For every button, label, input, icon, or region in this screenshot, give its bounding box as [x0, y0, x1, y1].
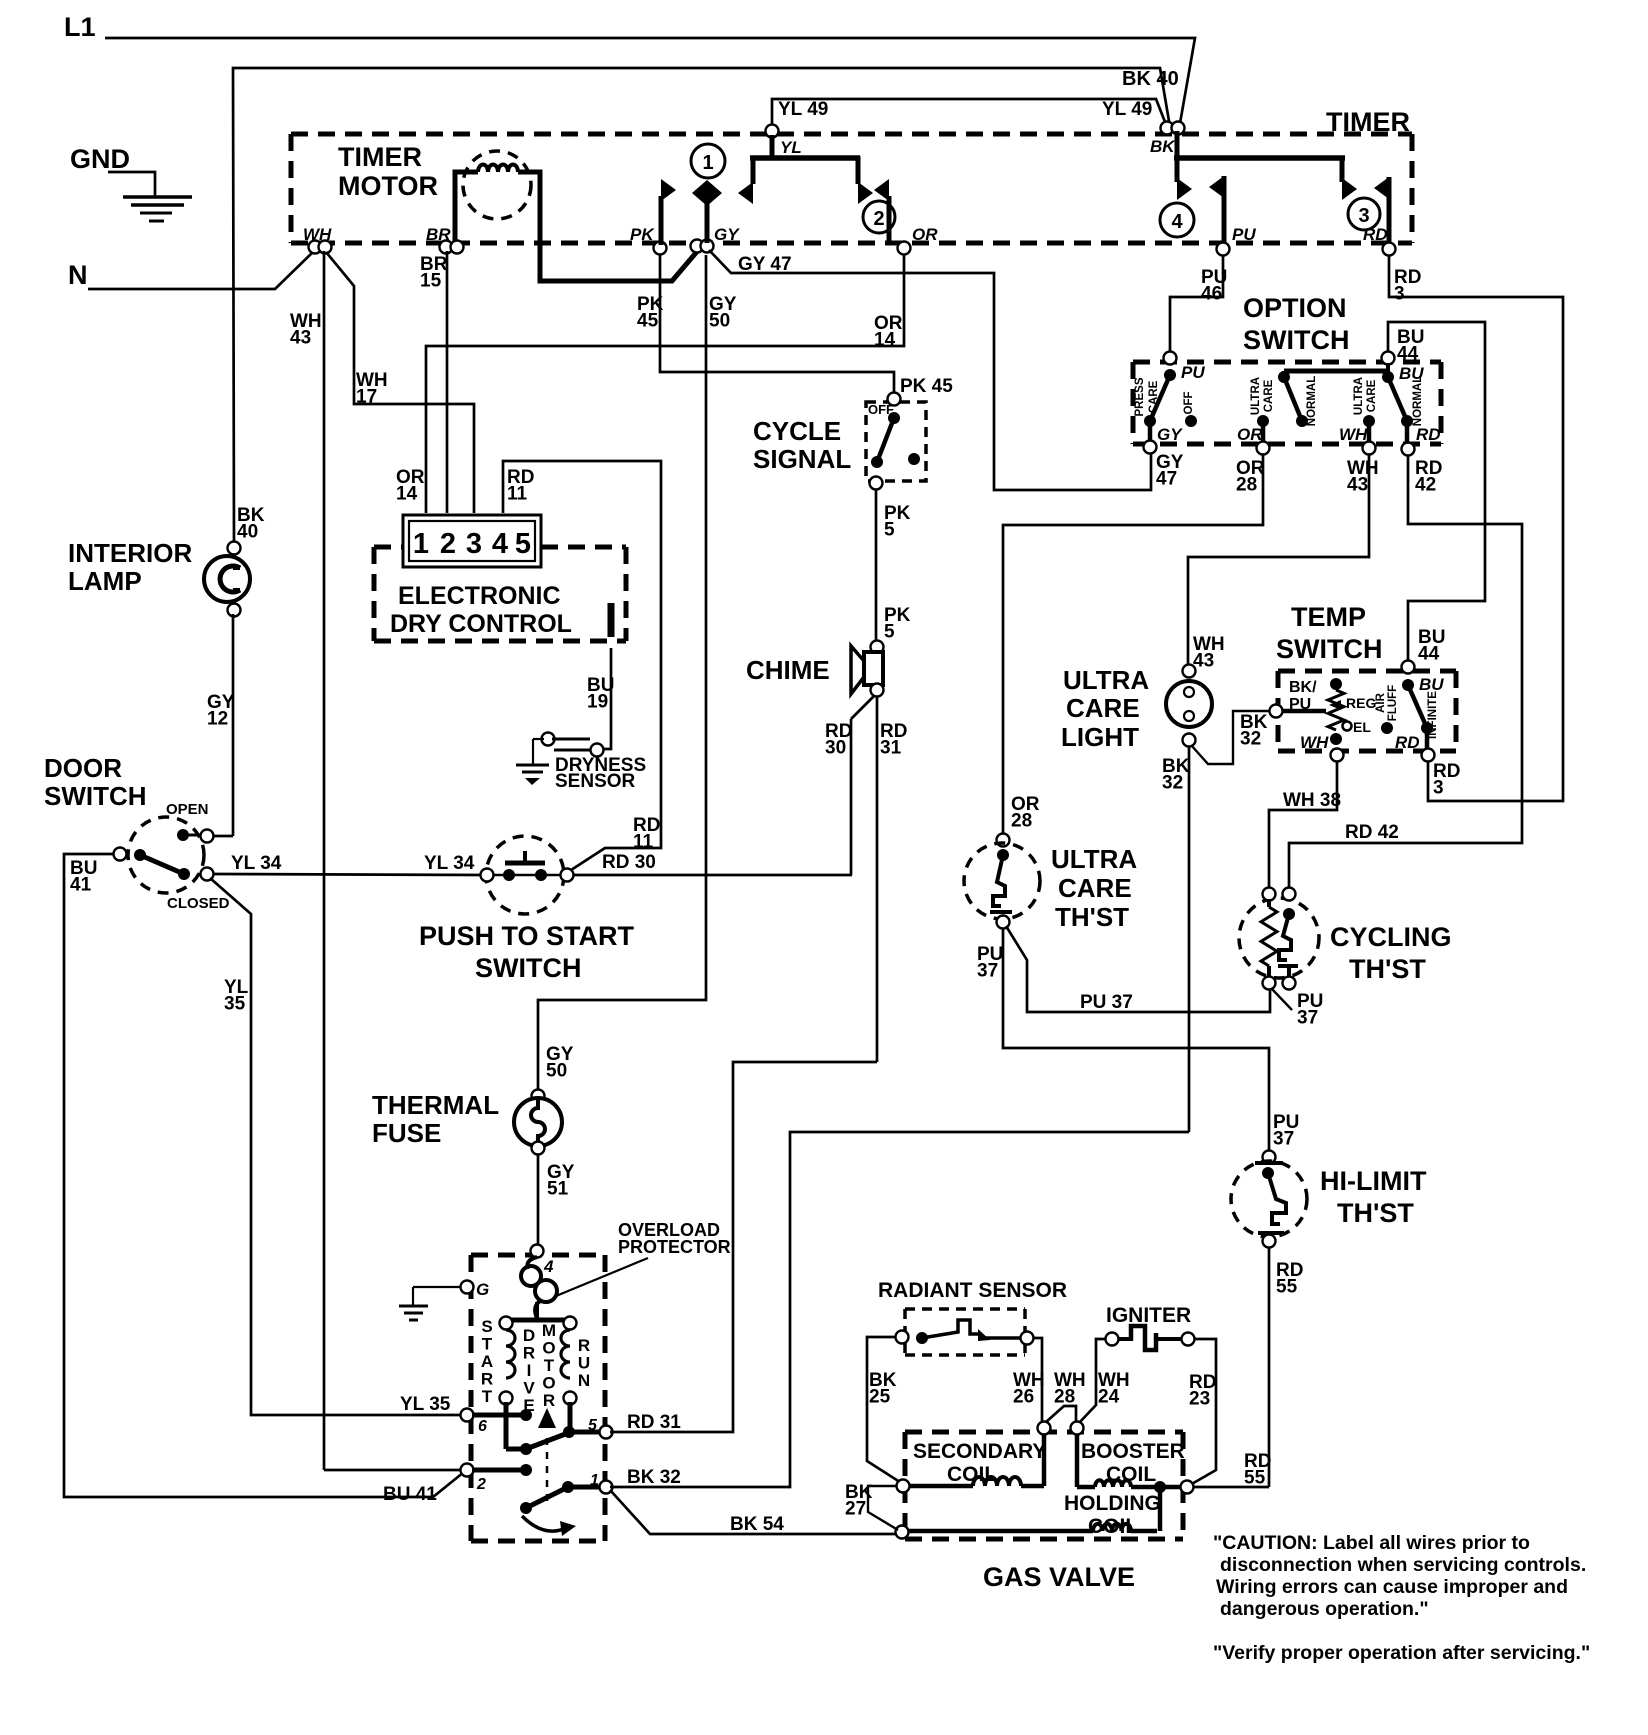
- svg-text:BU 41: BU 41: [383, 1484, 437, 1505]
- svg-text:2: 2: [873, 208, 884, 230]
- wire GY 47: [709, 250, 1184, 490]
- svg-text:FUSE: FUSE: [372, 1118, 441, 1148]
- svg-text:TEMP: TEMP: [1291, 602, 1366, 632]
- svg-text:RD 31: RD 31: [627, 1412, 681, 1433]
- hi-limit thermostat: [1231, 1151, 1427, 1298]
- svg-text:25: 25: [869, 1387, 891, 1408]
- svg-text:BK 54: BK 54: [730, 1514, 784, 1535]
- wire BK 25: [867, 1337, 903, 1484]
- svg-text:51: 51: [547, 1179, 569, 1200]
- svg-text:R: R: [523, 1344, 535, 1363]
- ultra care light DS2: [1061, 665, 1212, 753]
- terminal PU (timer): [1201, 225, 1256, 305]
- terminal RD (timer): [1363, 225, 1421, 305]
- svg-text:27: 27: [845, 1499, 866, 1520]
- terminal WH (timer): [303, 225, 332, 254]
- caution note: [1213, 1532, 1590, 1664]
- wire BU 19: [587, 648, 614, 749]
- svg-text:3: 3: [1433, 778, 1444, 799]
- svg-text:RD: RD: [1416, 425, 1441, 444]
- svg-text:N: N: [578, 1371, 590, 1390]
- timer contact 4: [1160, 131, 1345, 246]
- wire RD 55 (hi-limit to gas valve): [1192, 1247, 1271, 1489]
- svg-text:N: N: [68, 260, 88, 290]
- svg-text:U: U: [578, 1354, 590, 1373]
- svg-text:OPEN: OPEN: [166, 801, 209, 818]
- svg-text:G: G: [476, 1280, 489, 1299]
- terminal GY (timer): [691, 225, 741, 332]
- wire OR 14: [396, 255, 904, 513]
- svg-text:ULTRA: ULTRA: [1051, 844, 1137, 874]
- ultra care thermostat: [964, 834, 1137, 982]
- svg-text:CARE: CARE: [1263, 379, 1275, 412]
- svg-text:INTERIOR: INTERIOR: [68, 538, 192, 568]
- wire BR 15: [446, 251, 449, 513]
- svg-text:PRESS: PRESS: [1134, 377, 1146, 416]
- svg-text:50: 50: [709, 311, 730, 332]
- svg-text:17: 17: [356, 387, 377, 408]
- svg-text:12: 12: [207, 709, 228, 730]
- svg-text:37: 37: [1297, 1008, 1318, 1029]
- svg-text:SWITCH: SWITCH: [1243, 325, 1349, 355]
- svg-text:3: 3: [1394, 284, 1405, 305]
- wire RD 3 (timer to temp switch): [1389, 256, 1563, 801]
- svg-text:CYCLING: CYCLING: [1330, 922, 1452, 952]
- svg-text:2: 2: [476, 1476, 486, 1493]
- timer contact 2: [863, 179, 895, 245]
- wire WH 28 (jumper): [1046, 1370, 1086, 1422]
- svg-text:T: T: [482, 1335, 493, 1354]
- svg-text:YL 34: YL 34: [231, 853, 282, 874]
- svg-text:23: 23: [1189, 1389, 1210, 1410]
- wire WH 43 (option to light): [1188, 454, 1379, 672]
- cycle signal switch S3: [753, 393, 926, 490]
- drive motor box: [471, 1255, 605, 1541]
- svg-text:CARE: CARE: [1066, 693, 1140, 723]
- gas valve secondary coil: [897, 1422, 1051, 1493]
- chime SP1: [746, 641, 884, 697]
- svg-text:Wiring errors can cause improp: Wiring errors can cause improper and: [1216, 1576, 1568, 1598]
- wire RD 23: [1189, 1339, 1216, 1485]
- lamp DS1 (interior lamp): [68, 538, 250, 617]
- wire YL 49: [772, 99, 1167, 129]
- timer box: [291, 107, 1412, 243]
- wire OR 28 (option to ultra care thst): [1003, 454, 1265, 833]
- svg-text:PROTECTOR: PROTECTOR: [618, 1237, 731, 1257]
- svg-text:YL 35: YL 35: [400, 1394, 451, 1415]
- svg-text:LAMP: LAMP: [68, 566, 142, 596]
- svg-text:CLOSED: CLOSED: [167, 895, 230, 912]
- wire RD 42 (option to cycling thst): [1289, 455, 1522, 890]
- svg-text:ULTRA: ULTRA: [1250, 377, 1262, 415]
- svg-text:1: 1: [702, 152, 713, 174]
- wire GY 12: [207, 614, 235, 836]
- svg-text:DRY CONTROL: DRY CONTROL: [390, 610, 572, 638]
- svg-text:WH 38: WH 38: [1283, 790, 1341, 811]
- svg-text:SECONDARY: SECONDARY: [913, 1440, 1046, 1463]
- wire YL 34: [214, 853, 482, 875]
- node N: [68, 260, 88, 290]
- svg-text:I: I: [527, 1361, 532, 1380]
- svg-text:47: 47: [1156, 469, 1177, 490]
- svg-text:14: 14: [874, 330, 896, 351]
- svg-text:T: T: [544, 1356, 555, 1375]
- motor start contact: [461, 1402, 613, 1502]
- svg-text:"CAUTION: Label all wires prio: "CAUTION: Label all wires prior to: [1213, 1532, 1530, 1554]
- svg-text:37: 37: [977, 961, 998, 982]
- radiant sensor: [878, 1279, 1067, 1355]
- svg-text:RD 30: RD 30: [602, 852, 656, 873]
- svg-text:37: 37: [1273, 1129, 1294, 1150]
- push-to-start switch S2: [419, 836, 635, 983]
- svg-text:GY 47: GY 47: [738, 254, 792, 275]
- wire GY 50 (timer to fuse): [538, 255, 706, 1092]
- svg-text:YL 49: YL 49: [1102, 99, 1152, 120]
- svg-text:ULTRA: ULTRA: [1353, 377, 1365, 415]
- wire PU 37 (thst to hi-limit): [1003, 928, 1299, 1152]
- svg-text:REG: REG: [1346, 695, 1376, 711]
- wire GND: [108, 172, 155, 197]
- svg-text:RADIANT SENSOR: RADIANT SENSOR: [878, 1279, 1067, 1302]
- wire PK 5 (cycle signal to chime): [876, 489, 911, 643]
- terminal G + ground (motor): [399, 1280, 489, 1320]
- svg-text:M: M: [542, 1321, 556, 1340]
- svg-text:BK: BK: [1150, 137, 1176, 156]
- option switch pole 2: [1237, 371, 1390, 455]
- svg-text:44: 44: [1418, 644, 1440, 665]
- svg-text:R: R: [578, 1336, 590, 1355]
- svg-text:RD: RD: [1395, 733, 1420, 752]
- wire WH 43 (timer to motor): [290, 251, 463, 1470]
- gas valve booster coil: [1071, 1422, 1194, 1494]
- svg-text:11: 11: [633, 832, 654, 853]
- svg-text:DOOR: DOOR: [44, 753, 122, 783]
- svg-text:BK 40: BK 40: [1122, 68, 1179, 90]
- svg-text:15: 15: [420, 271, 442, 292]
- svg-text:TH'ST: TH'ST: [1055, 902, 1129, 932]
- wire BK 32 (light to temp switch): [1162, 711, 1271, 794]
- svg-text:BOOSTER: BOOSTER: [1081, 1440, 1185, 1463]
- wire L1: [105, 38, 1195, 129]
- option switch pole 1: [1134, 352, 1205, 454]
- svg-text:4: 4: [1171, 211, 1183, 233]
- svg-text:WH: WH: [303, 225, 332, 244]
- wire BU 41 (door to motor): [64, 854, 464, 1505]
- svg-text:TH'ST: TH'ST: [1337, 1198, 1414, 1228]
- svg-text:1: 1: [590, 1472, 599, 1489]
- node GND: [70, 144, 130, 174]
- svg-text:A: A: [481, 1352, 493, 1371]
- svg-text:R: R: [481, 1370, 493, 1389]
- svg-text:4: 4: [492, 528, 508, 560]
- wire RD 31 (motor to chime): [610, 1062, 877, 1433]
- svg-text:WH: WH: [1300, 733, 1329, 752]
- wire BK 54: [610, 1490, 898, 1535]
- svg-text:IGNITER: IGNITER: [1106, 1304, 1191, 1327]
- thermal fuse F1: [372, 1090, 562, 1155]
- svg-text:CYCLE: CYCLE: [753, 416, 841, 446]
- wire RD 30 (push-to-start to chime): [574, 696, 874, 875]
- svg-text:YL: YL: [780, 138, 802, 157]
- wire BK 40: [233, 68, 1179, 545]
- cycling thermostat: [1239, 888, 1452, 1029]
- timer contact 3: [1342, 156, 1389, 246]
- svg-text:GND: GND: [70, 144, 130, 174]
- svg-text:46: 46: [1201, 284, 1222, 305]
- svg-text:SWITCH: SWITCH: [475, 953, 581, 983]
- option switch S4 box: [1133, 293, 1441, 444]
- svg-text:V: V: [523, 1379, 535, 1398]
- svg-text:GY: GY: [714, 225, 740, 244]
- svg-text:TIMER: TIMER: [338, 142, 422, 172]
- wire WH 17: [326, 252, 474, 513]
- wire GY 51 (fuse to motor): [538, 1154, 575, 1248]
- svg-text:O: O: [542, 1374, 555, 1393]
- svg-text:BK 32: BK 32: [627, 1467, 681, 1488]
- svg-text:4: 4: [543, 1257, 554, 1276]
- svg-text:26: 26: [1013, 1387, 1034, 1408]
- svg-text:disconnection when servicing c: disconnection when servicing controls.: [1220, 1554, 1586, 1576]
- option switch pole 3: [1339, 352, 1441, 456]
- svg-text:GY: GY: [1157, 425, 1183, 444]
- svg-text:45: 45: [637, 311, 659, 332]
- terminal BR (timer): [420, 225, 464, 292]
- svg-text:THERMAL: THERMAL: [372, 1090, 499, 1120]
- svg-text:LIGHT: LIGHT: [1061, 722, 1139, 752]
- svg-text:42: 42: [1415, 475, 1436, 496]
- svg-text:EL: EL: [1353, 719, 1371, 735]
- svg-text:50: 50: [546, 1061, 567, 1082]
- svg-text:CHIME: CHIME: [746, 655, 830, 685]
- svg-text:55: 55: [1276, 1277, 1298, 1298]
- svg-text:dangerous operation.": dangerous operation.": [1220, 1598, 1429, 1620]
- svg-text:SWITCH: SWITCH: [44, 781, 147, 811]
- wire RD 11 (dry control to push-to-start): [503, 461, 661, 872]
- gas valve box: [905, 1432, 1183, 1592]
- svg-text:CARE: CARE: [1058, 873, 1132, 903]
- svg-text:14: 14: [396, 484, 418, 505]
- svg-text:YL 49: YL 49: [778, 99, 828, 120]
- svg-text:"Verify proper operation after: "Verify proper operation after servicing…: [1213, 1642, 1590, 1664]
- svg-text:43: 43: [290, 328, 311, 349]
- svg-text:1: 1: [413, 528, 429, 560]
- wire PU 46: [1170, 256, 1223, 352]
- node L1: [64, 12, 96, 42]
- timer contact 1: [661, 144, 725, 245]
- electronic dry control U1: [374, 547, 626, 641]
- svg-text:PK 45: PK 45: [900, 376, 953, 397]
- wire YL 35 (door to motor): [210, 878, 462, 1415]
- connector block 1-5: [403, 515, 541, 567]
- svg-text:O: O: [542, 1339, 555, 1358]
- timer YL contact bar: [738, 125, 873, 205]
- wire WH 24: [1078, 1339, 1130, 1424]
- svg-text:PK: PK: [630, 225, 655, 244]
- svg-text:PU: PU: [1181, 363, 1205, 382]
- svg-text:31: 31: [880, 738, 902, 759]
- svg-text:CARE: CARE: [1366, 379, 1378, 412]
- svg-text:41: 41: [70, 875, 92, 896]
- svg-text:D: D: [523, 1326, 535, 1345]
- svg-text:L1: L1: [64, 12, 96, 42]
- overload protector: [521, 1220, 731, 1318]
- svg-text:55: 55: [1244, 1468, 1266, 1489]
- svg-text:ULTRA: ULTRA: [1063, 665, 1149, 695]
- svg-text:RD: RD: [1363, 225, 1388, 244]
- temp switch S5 box: [1276, 602, 1456, 751]
- wire N: [88, 251, 314, 289]
- wire BK 27 (gas valve link): [845, 1482, 898, 1530]
- svg-text:2: 2: [440, 528, 456, 560]
- motor run contact: [461, 1464, 613, 1537]
- svg-text:11: 11: [507, 484, 528, 505]
- wire BU 44 (option to temp switch): [1388, 322, 1485, 665]
- svg-text:MOTOR: MOTOR: [338, 171, 438, 201]
- svg-text:5: 5: [884, 622, 895, 643]
- svg-text:FLUFF: FLUFF: [1387, 685, 1399, 721]
- timer motor M1: [338, 142, 700, 281]
- temp switch rheostat: [1270, 678, 1400, 762]
- svg-text:SIGNAL: SIGNAL: [753, 444, 851, 474]
- svg-text:32: 32: [1162, 773, 1183, 794]
- svg-text:3: 3: [1358, 205, 1369, 227]
- wire PK 45 (timer to cycle signal): [660, 255, 953, 397]
- svg-text:S: S: [481, 1317, 492, 1336]
- svg-text:NORMAL: NORMAL: [1412, 376, 1424, 426]
- svg-text:30: 30: [825, 738, 846, 759]
- door switch S1: [44, 753, 230, 912]
- svg-text:HOLDING: HOLDING: [1064, 1492, 1161, 1515]
- wire WH 26: [1013, 1338, 1045, 1424]
- svg-text:32: 32: [1240, 729, 1261, 750]
- svg-text:43: 43: [1347, 475, 1368, 496]
- wire RD 31 (chime down): [877, 696, 907, 1062]
- svg-text:28: 28: [1054, 1387, 1075, 1408]
- svg-text:5: 5: [588, 1417, 598, 1434]
- svg-text:BK/: BK/: [1289, 679, 1317, 696]
- terminal OR (timer): [874, 225, 938, 351]
- node BK (timer): [1150, 122, 1185, 157]
- svg-text:TIMER: TIMER: [1326, 107, 1410, 137]
- svg-text:SWITCH: SWITCH: [1276, 634, 1382, 664]
- svg-text:PU: PU: [1289, 696, 1311, 713]
- svg-text:PU 37: PU 37: [1080, 992, 1133, 1013]
- wire (light down): [1188, 746, 1191, 1132]
- motor windings: [481, 1302, 590, 1415]
- igniter: [1106, 1304, 1195, 1350]
- svg-text:AIR: AIR: [1375, 692, 1387, 713]
- svg-text:PUSH TO START: PUSH TO START: [419, 921, 635, 951]
- svg-text:OPTION: OPTION: [1243, 293, 1347, 323]
- ground GND symbol: [123, 197, 192, 221]
- svg-text:OR: OR: [912, 225, 938, 244]
- svg-text:R: R: [543, 1391, 555, 1410]
- svg-text:RD 42: RD 42: [1345, 822, 1399, 843]
- svg-text:28: 28: [1011, 811, 1032, 832]
- svg-text:NORMAL: NORMAL: [1306, 376, 1318, 426]
- wire BK 32 (motor to light): [610, 1132, 1189, 1488]
- svg-text:28: 28: [1236, 475, 1257, 496]
- wire WH 38 (temp switch to cycling thst): [1269, 761, 1341, 890]
- svg-text:SENSOR: SENSOR: [555, 771, 636, 792]
- svg-text:TH'ST: TH'ST: [1349, 954, 1426, 984]
- svg-text:19: 19: [587, 692, 608, 713]
- svg-text:YL 34: YL 34: [424, 853, 475, 874]
- svg-text:OR: OR: [1237, 425, 1263, 444]
- svg-text:6: 6: [478, 1418, 487, 1435]
- svg-text:35: 35: [224, 994, 246, 1015]
- temp switch pole BU: [1395, 661, 1460, 799]
- svg-text:5: 5: [515, 528, 531, 560]
- svg-text:5: 5: [884, 520, 895, 541]
- svg-text:HI-LIMIT: HI-LIMIT: [1320, 1166, 1427, 1196]
- gas valve holding coil: [896, 1492, 1161, 1539]
- svg-text:BR: BR: [426, 225, 451, 244]
- svg-text:WH: WH: [1339, 425, 1368, 444]
- svg-text:PU: PU: [1232, 225, 1256, 244]
- svg-text:3: 3: [466, 528, 482, 560]
- svg-text:ELECTRONIC: ELECTRONIC: [398, 582, 561, 610]
- svg-text:GAS VALVE: GAS VALVE: [983, 1562, 1135, 1592]
- svg-text:OFF: OFF: [1183, 392, 1195, 415]
- svg-text:T: T: [482, 1387, 493, 1406]
- svg-text:CARE: CARE: [1148, 380, 1160, 413]
- terminal PK (timer): [630, 225, 667, 332]
- dryness sensor: [516, 733, 646, 793]
- svg-text:24: 24: [1098, 1387, 1120, 1408]
- svg-text:40: 40: [237, 522, 258, 543]
- wire PU 37 (thst to cycling thst): [1006, 926, 1270, 1013]
